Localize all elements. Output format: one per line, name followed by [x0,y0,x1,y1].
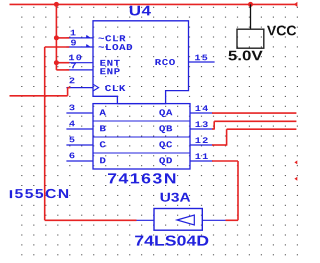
pin name RCO [155,59,175,65]
wire QD drop to U3A [237,161,239,220]
pin number 13 [196,121,208,127]
U3A output pin stub [202,219,226,221]
wire vertical branch to U4 control pins [55,4,57,70]
CLK edge-trigger wedge [93,84,99,91]
arrowhead floating node lower [294,177,297,181]
active-low flag pin 9 [86,44,91,47]
wire VCC bus top horizontal [10,3,297,5]
U4 row divider 1 [93,120,190,122]
pin name QA [159,109,172,117]
wire to pin 10 [56,62,69,64]
pin name A [99,109,106,115]
pin name QB [159,125,172,133]
pin name CLK [105,85,125,91]
pin number 7 [71,63,76,69]
VCC source lead [250,4,252,29]
wire CLK riser [67,88,69,96]
wire to pin 9 horizontal [45,46,70,48]
pin number 4 [69,121,75,127]
arrowhead end of VCC bus [294,2,298,7]
wire 555 output vertical run [44,47,46,220]
U4 row divider 3 [93,152,190,154]
pin name QC [159,141,172,149]
pin 2 CLK stub [66,87,93,89]
pin 15 RCO stub [189,61,215,63]
counter U4 control block outline [93,21,189,104]
pin 9 ~LOAD stub [66,46,93,48]
wire CLK horizontal from 555 [10,95,68,97]
pin number 15 [195,55,207,61]
pin number 12 [196,137,208,143]
pin 13 QB stub [190,128,213,130]
U4 row divider 2 [93,136,190,138]
inverter U3A triangle [177,215,194,225]
wire QC out segment [212,144,227,146]
U4 register block outline [93,104,190,169]
pin number 3 [69,105,74,111]
arrowhead floating node upper [294,160,297,164]
pin number 2 [70,78,75,84]
pin 10 ENT stub [66,62,93,64]
pin 12 QC stub [190,144,213,146]
pin name ~CLR [99,35,126,41]
pin number 10 [69,55,81,61]
refdes U4 [130,6,151,16]
wire QB out segment [212,128,214,130]
wire QD out segment [212,160,238,162]
pin 11 QD stub [190,160,213,162]
wire to pin 1 [56,37,69,39]
pin name ENP [100,68,119,74]
junction dot pin 10 [54,60,59,65]
pin 6 D stub [66,160,93,162]
wire QC out long [227,128,297,130]
pin name B [100,125,106,131]
pin number 6 [70,153,75,159]
pin 4 B stub [66,128,93,130]
pin name QD [159,157,172,165]
pin 5 C stub [66,144,93,146]
pin number 1 [71,30,76,36]
U3A input pin stub [136,219,154,221]
pin number 11 [196,153,208,159]
active-low flag pin 1 [86,35,91,38]
junction dot VCC bus / U4 branch [54,2,59,7]
junction dot pin 1 [54,35,59,40]
pin number 14 [196,105,209,111]
wire QB riser [213,121,215,129]
pin 1 ~CLR stub [66,37,93,39]
pin number 9 [71,40,76,46]
wire QD to U3A output node [226,219,239,221]
pin name D [100,157,105,163]
pin name ENT [100,60,120,66]
inverter U3A box [154,209,202,231]
pin number 5 [69,137,74,143]
wire QC riser [226,129,228,145]
pin name C [100,141,106,147]
part label 74LS04D [135,236,208,246]
wire to pin 7 [56,69,69,71]
label VCC [267,26,296,36]
VCC source V1 body [237,29,264,48]
value label 5.0V [228,51,262,61]
part label 74163N [108,173,175,183]
pin 3 A stub [66,112,93,114]
clipped letter M stroke of LM555CN [10,190,12,198]
pin 7 ENP stub [66,69,93,71]
junction dot VCC bus / source V1 [248,2,253,7]
wire QB out long [214,120,296,122]
pin name ~LOAD [99,44,133,50]
refdes U3A [161,193,191,202]
wire CLK into pin 2 [68,87,71,89]
wire to U3A input [45,219,137,221]
wire QA out [212,112,296,114]
pin 14 QA stub [190,112,213,114]
part label 555CN (left-clipped LM555CN) [15,189,68,198]
